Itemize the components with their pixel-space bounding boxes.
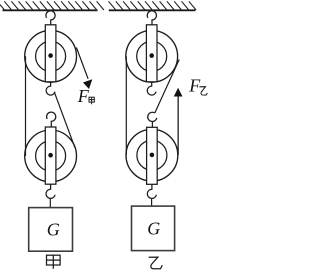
- movable pulley of 甲 (wheel, axle block, axle dot): [25, 127, 77, 184]
- label F乙 (applied force): [188, 75, 207, 95]
- hook: top hook of movable pulley 甲: [47, 112, 56, 127]
- label 甲 (system label): [47, 255, 61, 269]
- svg-text:F: F: [77, 86, 90, 106]
- fixed pulley of 甲 (wheel, axle block, axle dot): [25, 25, 77, 82]
- hook: lower hook of fixed pulley 乙 (idle): [147, 82, 156, 95]
- movable pulley of 乙 (wheel, axle block, axle dot): [126, 127, 178, 184]
- weight box G of 乙: [132, 206, 175, 251]
- hook: ceiling hook of system 乙: [147, 11, 156, 25]
- hook: ceiling hook of system 甲: [46, 11, 55, 25]
- wire: link from hook to weight G of 乙: [151, 199, 153, 206]
- svg-text:F: F: [188, 75, 201, 95]
- wire: left vertical rope of system 甲 (fixed pulley to movable pulley): [25, 56, 27, 156]
- wire: pull rope of 乙 with upward force arrow F乙: [174, 88, 183, 156]
- wire: link from hook to weight G of 甲: [49, 199, 51, 208]
- svg-text:G: G: [47, 219, 60, 239]
- wire: anchor rope of 乙 (from fixed pulley rim down to movable-pulley top hook): [155, 60, 179, 114]
- hook: lower hook of fixed pulley 甲 (rope anchor): [46, 82, 55, 95]
- fixed pulley of 乙 (wheel, axle block, axle dot): [126, 25, 178, 82]
- wire: anchor rope of 甲 (fixed-pulley hook to movable pulley right side): [54, 92, 75, 147]
- hook: lower hook of movable pulley 乙: [147, 184, 156, 198]
- svg-text:G: G: [147, 219, 160, 239]
- hook: top hook of movable pulley 乙 (rope tied here): [148, 112, 157, 127]
- wire: pull rope of 甲 with force arrow F甲: [76, 48, 92, 90]
- ceiling left (hatched support bar): [0, 1, 104, 10]
- label 乙 (system label): [149, 257, 163, 269]
- wire: left vertical rope of system 乙 (fixed pulley to movable pulley): [125, 56, 127, 155]
- label F甲 (applied force): [77, 86, 95, 106]
- weight box G of 甲: [29, 208, 73, 252]
- hook: lower hook of movable pulley 甲: [46, 184, 55, 198]
- ceiling right (hatched support bar): [109, 1, 197, 10]
